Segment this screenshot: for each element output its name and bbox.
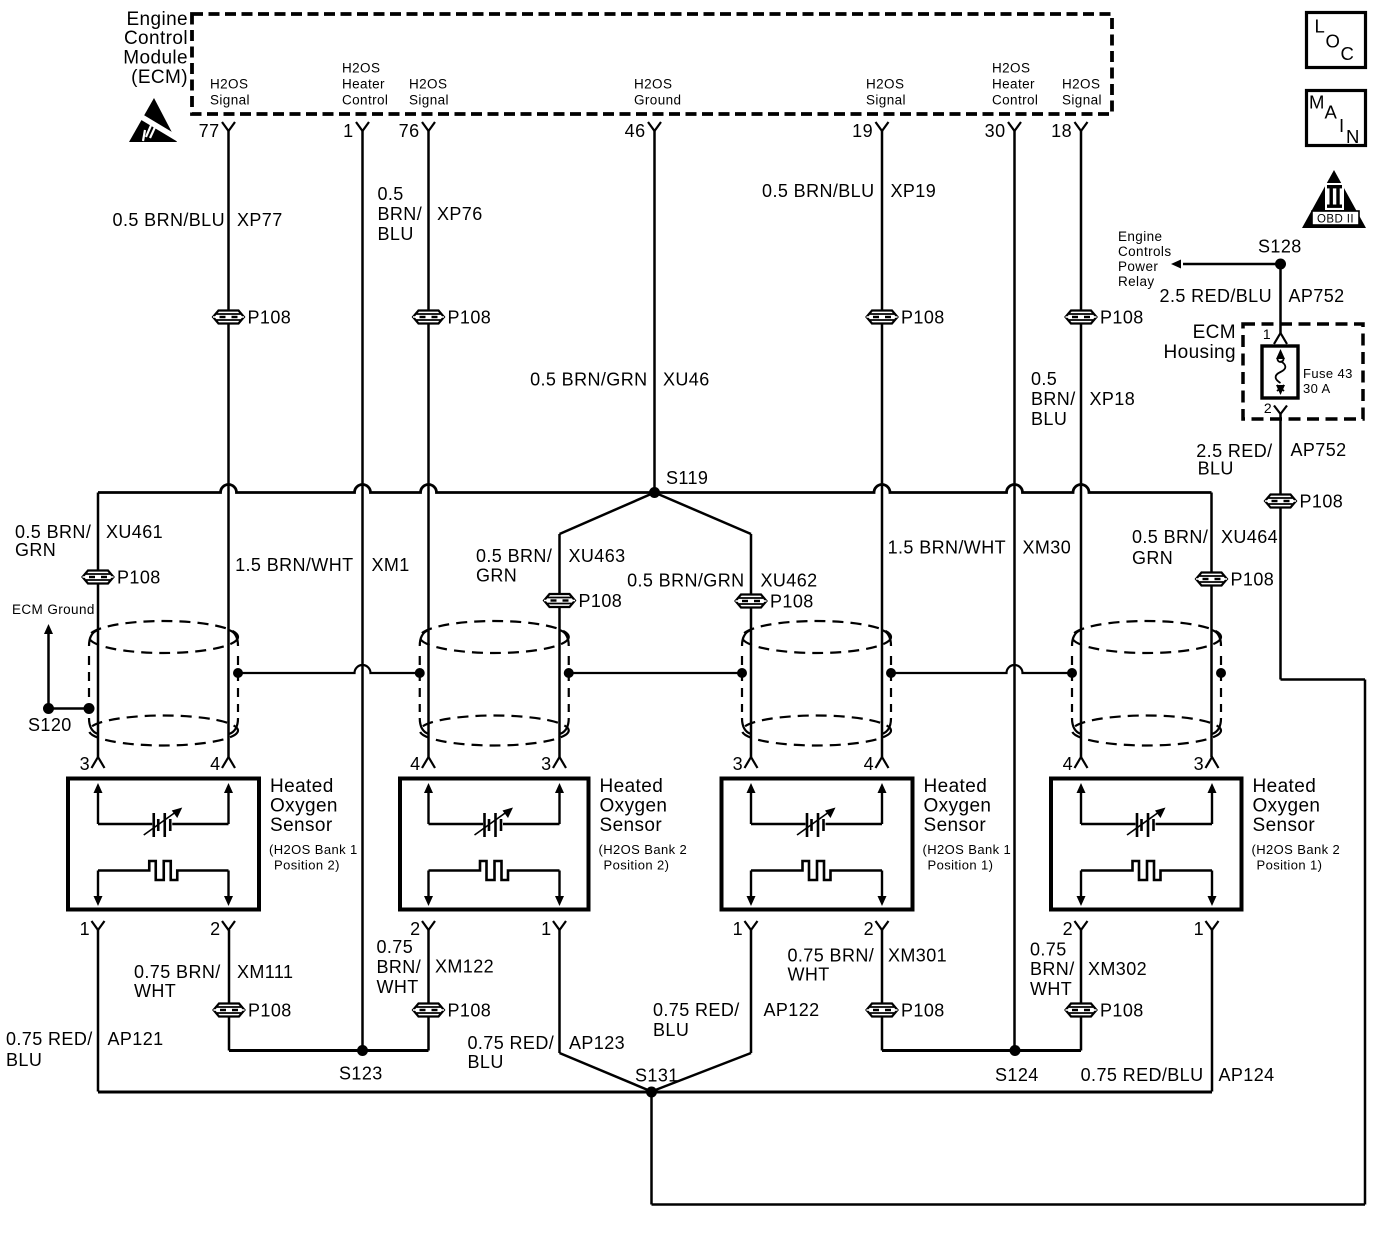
svg-text:AP752: AP752	[1289, 286, 1345, 306]
svg-text:XM302: XM302	[1088, 959, 1147, 979]
svg-text:P108: P108	[770, 592, 814, 612]
svg-text:46: 46	[625, 121, 646, 141]
svg-text:4: 4	[210, 754, 220, 774]
svg-text:Heater: Heater	[992, 77, 1035, 92]
svg-text:1: 1	[733, 919, 743, 939]
svg-text:1: 1	[1194, 919, 1204, 939]
svg-text:18: 18	[1051, 121, 1072, 141]
svg-text:2.5 RED/BLU: 2.5 RED/BLU	[1160, 286, 1272, 306]
svg-text:P108: P108	[579, 591, 623, 611]
svg-text:Heater: Heater	[342, 77, 385, 92]
svg-text:Sensor: Sensor	[924, 815, 987, 836]
svg-text:P108: P108	[1100, 308, 1144, 328]
svg-text:XU462: XU462	[761, 571, 818, 591]
svg-text:P108: P108	[117, 568, 161, 588]
svg-text:XU463: XU463	[569, 546, 626, 566]
svg-text:XP18: XP18	[1090, 389, 1136, 409]
svg-text:Control: Control	[124, 28, 188, 49]
svg-text:3: 3	[80, 754, 90, 774]
svg-text:N: N	[1346, 126, 1360, 147]
svg-text:BLU: BLU	[468, 1052, 504, 1072]
svg-text:H2OS: H2OS	[409, 77, 447, 92]
svg-text:Position 1): Position 1)	[1257, 858, 1323, 873]
svg-text:Oxygen: Oxygen	[270, 796, 338, 817]
svg-text:WHT: WHT	[1030, 979, 1072, 999]
svg-text:BRN/: BRN/	[1031, 389, 1076, 409]
svg-text:0.5 BRN/GRN: 0.5 BRN/GRN	[530, 370, 647, 390]
svg-text:XU461: XU461	[106, 522, 163, 542]
svg-text:0.75: 0.75	[377, 937, 414, 957]
svg-text:4: 4	[864, 754, 874, 774]
svg-text:P108: P108	[901, 308, 945, 328]
svg-text:BLU: BLU	[653, 1020, 689, 1040]
svg-text:H2OS: H2OS	[992, 61, 1030, 76]
svg-text:0.75 BRN/: 0.75 BRN/	[134, 962, 221, 982]
svg-text:0.75: 0.75	[1030, 940, 1067, 960]
svg-text:0.5: 0.5	[1031, 369, 1057, 389]
svg-text:P108: P108	[1231, 570, 1275, 590]
svg-text:2: 2	[1063, 919, 1073, 939]
svg-text:M: M	[1309, 92, 1325, 113]
svg-text:Control: Control	[992, 93, 1038, 108]
svg-text:(H2OS Bank 1: (H2OS Bank 1	[269, 842, 358, 857]
svg-text:XP76: XP76	[437, 204, 483, 224]
svg-text:Oxygen: Oxygen	[924, 796, 992, 817]
svg-text:0.5 BRN/BLU: 0.5 BRN/BLU	[762, 181, 874, 201]
svg-text:C: C	[1341, 43, 1355, 64]
svg-text:30: 30	[985, 121, 1006, 141]
svg-text:2: 2	[210, 919, 220, 939]
svg-text:(H2OS Bank 2: (H2OS Bank 2	[599, 842, 688, 857]
svg-text:GRN: GRN	[1132, 548, 1173, 568]
svg-text:Fuse 43: Fuse 43	[1303, 366, 1353, 381]
svg-text:Heated: Heated	[600, 776, 664, 797]
svg-text:XM122: XM122	[435, 957, 494, 977]
svg-text:S119: S119	[666, 468, 708, 488]
svg-text:Power: Power	[1118, 259, 1158, 274]
svg-text:4: 4	[410, 754, 420, 774]
svg-text:1: 1	[1263, 326, 1271, 342]
svg-text:WHT: WHT	[134, 981, 176, 1001]
svg-text:A: A	[1325, 102, 1338, 123]
svg-text:P108: P108	[248, 308, 292, 328]
svg-text:0.5: 0.5	[378, 184, 404, 204]
svg-text:XM301: XM301	[888, 946, 947, 966]
svg-text:Signal: Signal	[1062, 93, 1102, 108]
svg-text:1.5 BRN/WHT: 1.5 BRN/WHT	[888, 538, 1006, 558]
svg-text:BLU: BLU	[6, 1050, 42, 1070]
svg-text:2: 2	[864, 919, 874, 939]
svg-text:XP77: XP77	[237, 210, 283, 230]
svg-text:XM111: XM111	[237, 962, 293, 982]
svg-text:P108: P108	[1100, 1001, 1144, 1021]
svg-text:1.5 BRN/WHT: 1.5 BRN/WHT	[235, 555, 353, 575]
svg-text:Signal: Signal	[210, 93, 250, 108]
svg-text:O: O	[1326, 31, 1341, 52]
svg-text:0.75 RED/BLU: 0.75 RED/BLU	[1081, 1065, 1204, 1085]
svg-text:0.5 BRN/: 0.5 BRN/	[1132, 527, 1208, 547]
svg-text:S120: S120	[28, 715, 72, 735]
svg-text:0.75 RED/: 0.75 RED/	[653, 1000, 740, 1020]
svg-text:30 A: 30 A	[1303, 381, 1331, 396]
svg-text:S123: S123	[339, 1064, 383, 1084]
svg-text:(H2OS Bank 1: (H2OS Bank 1	[923, 842, 1012, 857]
svg-text:Sensor: Sensor	[1253, 815, 1316, 836]
svg-text:Signal: Signal	[409, 93, 449, 108]
svg-text:AP121: AP121	[108, 1029, 164, 1049]
svg-text:WHT: WHT	[377, 977, 419, 997]
svg-text:Sensor: Sensor	[270, 815, 333, 836]
svg-text:P108: P108	[448, 308, 492, 328]
svg-text:GRN: GRN	[15, 540, 56, 560]
svg-text:(ECM): (ECM)	[131, 67, 188, 88]
svg-text:OBD II: OBD II	[1317, 214, 1354, 226]
svg-text:S124: S124	[995, 1065, 1039, 1085]
svg-text:Position 2): Position 2)	[604, 858, 670, 873]
svg-text:BLU: BLU	[1198, 459, 1234, 479]
svg-text:(H2OS Bank 2: (H2OS Bank 2	[1252, 842, 1341, 857]
svg-text:Housing: Housing	[1163, 342, 1236, 363]
svg-text:Engine: Engine	[1118, 229, 1162, 244]
svg-text:0.5 BRN/GRN: 0.5 BRN/GRN	[627, 571, 744, 591]
svg-text:19: 19	[852, 121, 873, 141]
svg-text:Ground: Ground	[634, 93, 681, 108]
svg-text:AP752: AP752	[1291, 440, 1347, 460]
svg-text:P108: P108	[448, 1001, 492, 1021]
svg-text:H2OS: H2OS	[866, 77, 904, 92]
svg-text:2: 2	[1264, 400, 1272, 416]
svg-text:Relay: Relay	[1118, 274, 1155, 289]
svg-text:ECM: ECM	[1193, 322, 1236, 343]
svg-text:BRN/: BRN/	[378, 204, 423, 224]
svg-text:Heated: Heated	[270, 776, 334, 797]
svg-text:AP122: AP122	[764, 1000, 820, 1020]
svg-text:1: 1	[343, 121, 353, 141]
svg-text:Controls: Controls	[1118, 244, 1171, 259]
svg-text:P108: P108	[248, 1001, 292, 1021]
svg-text:3: 3	[1194, 754, 1204, 774]
svg-text:1: 1	[541, 919, 551, 939]
svg-text:L: L	[1315, 16, 1326, 37]
svg-text:P108: P108	[901, 1001, 945, 1021]
svg-text:1: 1	[80, 919, 90, 939]
svg-text:Heated: Heated	[1253, 776, 1317, 797]
svg-text:2: 2	[410, 919, 420, 939]
svg-text:H2OS: H2OS	[1062, 77, 1100, 92]
svg-text:76: 76	[399, 121, 420, 141]
svg-text:WHT: WHT	[788, 965, 830, 985]
svg-text:I: I	[1339, 115, 1345, 136]
svg-text:0.75 BRN/: 0.75 BRN/	[788, 946, 875, 966]
svg-text:BLU: BLU	[1031, 409, 1067, 429]
svg-text:XP19: XP19	[891, 181, 937, 201]
svg-text:Heated: Heated	[924, 776, 988, 797]
svg-text:0.75 RED/: 0.75 RED/	[468, 1033, 555, 1053]
svg-text:XM1: XM1	[372, 555, 410, 575]
svg-text:H2OS: H2OS	[210, 77, 248, 92]
svg-text:H2OS: H2OS	[634, 77, 672, 92]
svg-text:S128: S128	[1258, 237, 1302, 257]
svg-text:BLU: BLU	[378, 224, 414, 244]
svg-text:Sensor: Sensor	[600, 815, 663, 836]
svg-text:AP123: AP123	[569, 1033, 625, 1053]
svg-text:Signal: Signal	[866, 93, 906, 108]
svg-text:AP124: AP124	[1219, 1065, 1275, 1085]
svg-text:Position 1): Position 1)	[928, 858, 994, 873]
svg-text:BRN/: BRN/	[377, 957, 422, 977]
svg-text:S131: S131	[635, 1066, 679, 1086]
svg-text:GRN: GRN	[476, 566, 517, 586]
svg-text:0.5 BRN/: 0.5 BRN/	[15, 522, 91, 542]
svg-text:4: 4	[1063, 754, 1073, 774]
svg-text:XU464: XU464	[1221, 527, 1278, 547]
svg-text:XU46: XU46	[663, 370, 710, 390]
svg-text:XM30: XM30	[1023, 538, 1072, 558]
svg-text:Oxygen: Oxygen	[1253, 796, 1321, 817]
svg-text:Control: Control	[342, 93, 388, 108]
svg-text:Position 2): Position 2)	[274, 858, 340, 873]
svg-text:0.5 BRN/: 0.5 BRN/	[476, 546, 552, 566]
svg-text:0.75 RED/: 0.75 RED/	[6, 1029, 93, 1049]
svg-text:Module: Module	[123, 48, 188, 69]
svg-text:H2OS: H2OS	[342, 61, 380, 76]
svg-text:P108: P108	[1300, 492, 1344, 512]
svg-text:BRN/: BRN/	[1030, 959, 1075, 979]
svg-text:Oxygen: Oxygen	[600, 796, 668, 817]
svg-text:3: 3	[541, 754, 551, 774]
svg-text:77: 77	[199, 121, 220, 141]
svg-text:3: 3	[733, 754, 743, 774]
svg-text:ECM Ground: ECM Ground	[12, 602, 95, 617]
svg-text:0.5 BRN/BLU: 0.5 BRN/BLU	[113, 210, 225, 230]
svg-text:Engine: Engine	[126, 9, 188, 30]
